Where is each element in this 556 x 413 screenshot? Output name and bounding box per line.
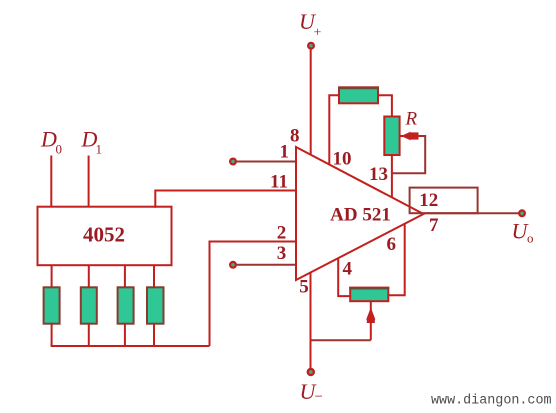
potentiometer offset bottom — [349, 288, 389, 302]
wire lead box to resistor 2 — [88, 265, 90, 288]
wiper arrow of R — [400, 132, 419, 140]
wire wiper return to U- — [311, 339, 371, 341]
node D1 label — [81, 127, 103, 157]
wire bus riser to pin 2 — [210, 242, 297, 347]
wire lead box to resistor 3 — [124, 265, 126, 288]
svg-text:0: 0 — [56, 142, 63, 157]
resistor bank 3 — [118, 287, 134, 323]
resistor bank 1 — [44, 287, 60, 323]
svg-text:D: D — [40, 127, 57, 152]
terminal pin 1 input — [229, 158, 237, 166]
svg-text:www.diangon.com: www.diangon.com — [431, 394, 552, 409]
resistor bank 4 — [147, 287, 164, 323]
node D0 label — [40, 127, 62, 157]
terminal U- — [307, 368, 315, 376]
svg-text:o: o — [527, 231, 534, 246]
svg-text:1: 1 — [280, 142, 290, 163]
svg-text:R: R — [405, 109, 418, 130]
svg-text:3: 3 — [277, 243, 287, 264]
wire resistor 1 to bus — [51, 324, 53, 346]
op-amp AD 521 — [296, 147, 424, 280]
wire pin 5 to U- — [310, 273, 312, 369]
resistor R — [384, 117, 399, 156]
terminal Uo — [518, 209, 526, 217]
wire R wiper loop — [392, 136, 425, 173]
wire D1 input — [88, 156, 90, 208]
wire resistor 4 to bus — [153, 324, 155, 346]
wire U+ to pin 8 — [310, 50, 312, 156]
svg-text:4052: 4052 — [83, 223, 125, 247]
svg-text:7: 7 — [429, 215, 439, 236]
wire R bottom to pin 13 — [391, 155, 393, 198]
svg-text:AD 521: AD 521 — [330, 205, 391, 226]
svg-text:6: 6 — [386, 234, 396, 255]
wire pin 11 to 4052 — [155, 191, 296, 208]
node U+ label — [299, 9, 322, 41]
terminal U+ — [307, 42, 315, 50]
wire pin 12 sense box — [410, 188, 478, 214]
svg-text:10: 10 — [333, 149, 352, 170]
wire pin 1 input — [236, 161, 296, 163]
wire D0 input — [50, 156, 52, 208]
wire lead box to resistor 4 — [153, 265, 155, 288]
svg-text:−: − — [315, 389, 323, 405]
wire feedback resistor to R top — [378, 95, 392, 116]
wire lead box to resistor 1 — [51, 265, 53, 288]
svg-text:2: 2 — [277, 222, 287, 243]
wire pin 4 to offset pot — [338, 258, 350, 296]
wire resistor 2 to bus — [88, 324, 90, 346]
svg-text:12: 12 — [419, 190, 438, 211]
resistor feedback top — [338, 87, 379, 103]
svg-text:5: 5 — [299, 277, 309, 298]
svg-text:1: 1 — [96, 142, 103, 157]
terminal pin 3 input — [229, 261, 237, 269]
wiper of offset pot — [366, 301, 375, 340]
wire bottom bus — [51, 345, 210, 347]
wire pin 10 to feedback resistor — [329, 95, 339, 165]
node Uo label — [512, 219, 534, 246]
wire output to Uo — [424, 212, 520, 214]
svg-text:13: 13 — [369, 164, 388, 185]
wire resistor 3 to bus — [124, 324, 126, 346]
svg-text:8: 8 — [290, 126, 300, 147]
svg-text:4: 4 — [342, 259, 352, 280]
node U- label — [300, 379, 323, 405]
wire offset pot to pin 6 — [388, 225, 404, 296]
svg-text:11: 11 — [270, 171, 288, 192]
svg-text:+: + — [314, 26, 322, 41]
multiplexer 4052 — [38, 207, 172, 266]
wire pin 3 input — [236, 264, 296, 266]
resistor bank 2 — [81, 287, 97, 323]
